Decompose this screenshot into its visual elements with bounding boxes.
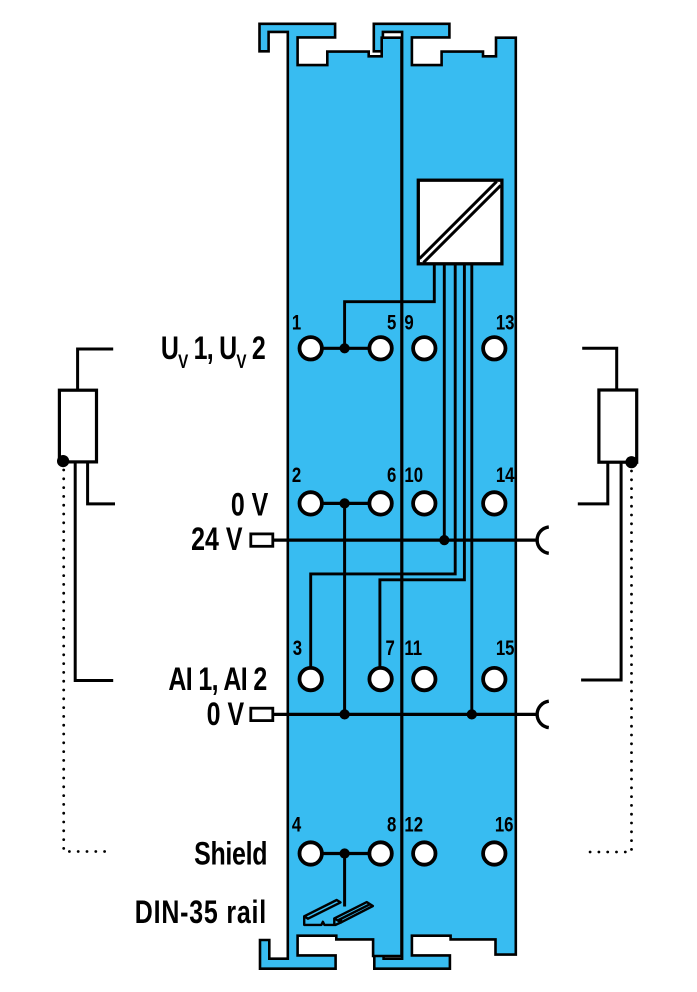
svg-text:Shield: Shield xyxy=(194,836,267,872)
wire R1 signal to AI 1 xyxy=(75,462,113,681)
terminal 15 xyxy=(483,668,505,690)
svg-text:0 V: 0 V xyxy=(207,697,244,733)
node C (junction dot 0V line right) xyxy=(467,709,477,719)
terminal 13 xyxy=(483,337,505,359)
wire W1 (U1 to Uv supply node A) xyxy=(345,263,435,348)
svg-text:4: 4 xyxy=(292,814,302,837)
terminal 3 xyxy=(300,668,322,690)
svg-text:1: 1 xyxy=(292,312,302,335)
svg-text:15: 15 xyxy=(496,637,515,660)
terminal 9 xyxy=(413,337,435,359)
svg-text:14: 14 xyxy=(496,464,515,487)
sensor R2 (right transducer body) xyxy=(599,390,637,462)
wire R2 0V return xyxy=(578,462,608,504)
wire W2 (U1 to 24V node B) xyxy=(443,263,446,540)
svg-text:8: 8 xyxy=(387,814,397,837)
wire shield drop (terminal 4/8 node to DIN rail) xyxy=(343,854,346,907)
svg-text:11: 11 xyxy=(404,637,422,660)
terminal 5 xyxy=(369,337,391,359)
terminal 1 xyxy=(300,337,322,359)
terminal 6 xyxy=(369,492,391,514)
node R1 shield (junction dot) xyxy=(57,455,69,467)
wire link terminals 2-6 xyxy=(313,502,378,505)
svg-text:7: 7 xyxy=(385,637,394,660)
converter U1 (electronic isolation symbol, white square with diagonal stripe) xyxy=(418,180,502,264)
terminal 11 xyxy=(413,668,435,690)
svg-text:UV 1, UV 2: UV 1, UV 2 xyxy=(161,331,266,373)
terminal 10 xyxy=(413,492,435,514)
svg-text:12: 12 xyxy=(404,814,423,837)
wire R1 0V return xyxy=(88,462,115,504)
wire R2 supply to Uv xyxy=(582,348,617,390)
wire R2 shield (dotted) xyxy=(583,471,632,852)
wire R2 signal to AI 2 xyxy=(581,462,621,680)
wire W3 (U1 to terminal 3, AI 1) xyxy=(311,263,456,670)
terminal 14 xyxy=(483,492,505,514)
svg-text:10: 10 xyxy=(404,464,423,487)
svg-text:5: 5 xyxy=(387,312,397,335)
svg-text:3: 3 xyxy=(293,637,303,660)
svg-text:9: 9 xyxy=(404,312,413,335)
wire R1 shield (dotted) xyxy=(64,470,111,852)
24V pass-through socket arc xyxy=(537,527,549,553)
svg-text:24 V: 24 V xyxy=(191,522,242,558)
node (junction dot 0V line left) xyxy=(340,709,350,719)
svg-text:13: 13 xyxy=(496,312,515,335)
node (junction dot terminals 2-6) xyxy=(340,498,350,508)
svg-text:DIN-35 rail: DIN-35 rail xyxy=(135,895,266,931)
0V pass-through socket arc xyxy=(537,701,549,727)
DIN-35 rail symbol xyxy=(304,900,373,925)
module body left (I/O module half 1, terminals 1-8) xyxy=(260,24,402,969)
0V connector plug xyxy=(251,708,273,720)
svg-text:6: 6 xyxy=(387,464,397,487)
wire 0V drop (terminal 2/6 node to 0V rail) xyxy=(343,503,346,714)
24V connector plug xyxy=(251,534,273,546)
terminal 16 xyxy=(483,842,505,864)
wire R1 supply to Uv xyxy=(78,349,114,390)
terminal 7 xyxy=(369,668,391,690)
wire W5 (U1 to 0V node C) xyxy=(470,263,473,714)
node (junction dot terminals 4-8) xyxy=(340,848,350,858)
svg-text:0 V: 0 V xyxy=(231,488,268,524)
svg-text:2: 2 xyxy=(292,464,301,487)
sensor R1 (left transducer body) xyxy=(59,390,96,462)
terminal 4 xyxy=(300,842,322,864)
module body right (I/O module half 2, terminals 9-16) xyxy=(374,24,516,969)
svg-text:16: 16 xyxy=(495,814,514,837)
terminal 2 xyxy=(300,492,322,514)
wire link terminals 4-8 xyxy=(313,852,378,855)
node B (junction dot on 24V line) xyxy=(439,535,449,545)
svg-text:AI 1, AI 2: AI 1, AI 2 xyxy=(168,662,267,698)
0V supply line xyxy=(272,713,536,716)
wire W4 (U1 to terminal 7, AI 2) xyxy=(380,263,465,670)
24V supply line xyxy=(272,538,536,541)
node R2 shield (junction dot) xyxy=(625,456,637,468)
node A (junction dot terminals 1-5) xyxy=(340,343,350,353)
terminal 12 xyxy=(413,842,435,864)
wire link terminals 1-5 xyxy=(313,347,378,350)
terminal 8 xyxy=(369,842,391,864)
